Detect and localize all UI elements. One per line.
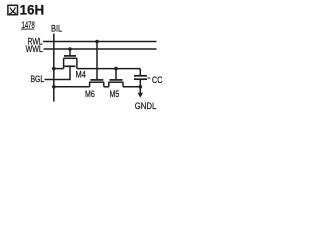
transistor M6: [90, 79, 103, 81]
svg-text:M5: M5: [110, 89, 120, 99]
wire storage node SN to CC: [77, 68, 140, 70]
svg-text:BGL: BGL: [31, 74, 45, 84]
svg-text:M4: M4: [76, 70, 87, 80]
wire BIL to M4: [54, 68, 64, 70]
svg-text:16H: 16H: [20, 3, 45, 18]
transistor M5: [110, 79, 123, 81]
node dot RWL to M6 gate: [95, 40, 99, 44]
wire M4 gate lead: [69, 49, 71, 56]
node dot CC to ground rail: [139, 85, 143, 89]
svg-text:CC: CC: [152, 75, 163, 85]
node dot SN to M5 gate: [114, 67, 118, 71]
wire BGL to M4 back gate: [45, 66, 71, 79]
node dot WWL to M4 gate: [68, 47, 72, 51]
wire RWL horizontal: [43, 41, 157, 43]
svg-text:GNDL: GNDL: [135, 101, 157, 111]
title glyph 図: [8, 5, 18, 14]
svg-text:WWL: WWL: [26, 44, 44, 54]
node dot BIL to read path: [52, 85, 56, 89]
wire M6 gate lead: [96, 42, 98, 80]
wire BIL vertical: [53, 34, 55, 102]
svg-text:BIL: BIL: [51, 24, 63, 34]
svg-text:M6: M6: [85, 89, 95, 99]
capacitor CC: [139, 69, 141, 76]
ground arrow GNDL: [139, 87, 141, 93]
wire bottom rail segments: [54, 86, 90, 88]
transistor M4 (dual gate): [64, 55, 76, 57]
node dot BIL to M4 source: [52, 67, 56, 71]
wire WWL horizontal: [44, 48, 157, 50]
svg-text:1478: 1478: [22, 20, 35, 31]
wire M5 gate lead: [115, 69, 117, 80]
